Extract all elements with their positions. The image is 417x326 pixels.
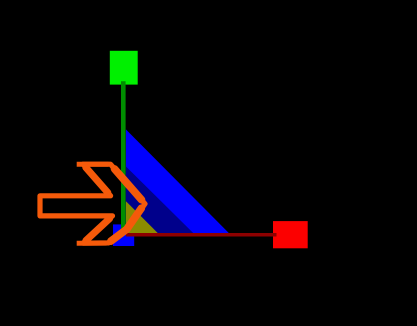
arrow head lower leg thickening <box>111 208 142 241</box>
arrow head top spur extension <box>77 162 109 167</box>
origin marker (blue square) <box>113 224 134 246</box>
green square marker <box>110 51 138 85</box>
red square marker <box>273 221 308 248</box>
orange arrow outline <box>40 164 145 243</box>
arrow head upper leg thickening <box>115 169 142 200</box>
small olive triangle <box>126 201 158 233</box>
green vertical line <box>121 81 126 234</box>
large blue triangle <box>126 129 229 233</box>
medium navy triangle <box>126 166 193 233</box>
dark red horizontal line <box>126 233 277 237</box>
arrow head upper back thickening <box>86 167 108 192</box>
arrow head bottom spur extension <box>77 241 107 246</box>
arrow head lower back thickening <box>86 219 110 241</box>
